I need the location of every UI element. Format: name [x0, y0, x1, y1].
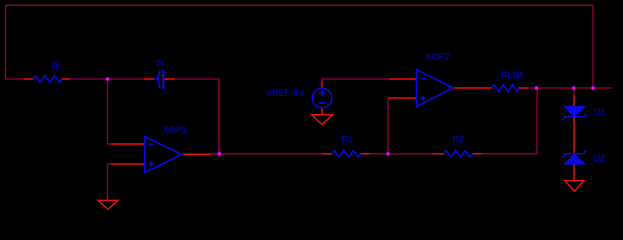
wire left vertical down to RI row — [5, 5, 7, 79]
diode D2 pins — [573, 164, 575, 181]
svg-text:VREF-0V: VREF-0V — [266, 88, 304, 98]
ground below VREF-0V — [312, 115, 333, 125]
wire node A down to XOP1 minus input — [108, 79, 112, 144]
op-amp XOP1 — [145, 137, 182, 173]
diode D1 zener — [563, 107, 587, 121]
resistor RI — [33, 76, 62, 83]
wire RI to CI with junction — [70, 78, 144, 80]
resistor R1 — [332, 151, 361, 158]
svg-text:R2: R2 — [453, 135, 465, 145]
diode D2 zener — [563, 150, 587, 164]
wire RLIM output row to right stub — [528, 87, 612, 89]
junction node A at RI-CI — [106, 77, 110, 81]
wire XOP1 output row to R1 — [211, 153, 322, 155]
wire D1 junction stub — [573, 88, 575, 95]
junction D1 node — [572, 86, 576, 90]
svg-text:D1: D1 — [594, 107, 606, 117]
junction XOP1 output node — [218, 152, 222, 156]
voltage source VREF-0V — [312, 88, 331, 107]
svg-text:RI: RI — [52, 61, 61, 71]
diode D1 pins — [573, 95, 575, 154]
junction R1-R2 node to XOP2 plus — [386, 152, 390, 156]
svg-text:XOP2: XOP2 — [426, 52, 450, 62]
wire R2 right up to RLIM output node — [482, 88, 537, 154]
capacitor CI — [154, 70, 163, 89]
svg-text:RLIM: RLIM — [501, 71, 523, 81]
wire R1 to R2 with junction to XOP2 plus — [370, 153, 432, 155]
resistor R2 — [444, 151, 473, 158]
resistor RLIM pins — [519, 87, 529, 89]
wire VREF to XOP2 minus input — [322, 79, 389, 81]
wire XOP1 plus input corner to ground — [108, 164, 112, 200]
wire right vertical down to output row — [592, 5, 594, 88]
op-amp XOP2 — [417, 70, 454, 107]
wire left corner to RI — [6, 78, 24, 80]
resistor RLIM — [492, 85, 519, 92]
wire CI to down corner — [175, 79, 219, 154]
op-amp XOP1 pins — [111, 144, 211, 164]
op-amp XOP2 pins — [388, 79, 492, 98]
resistor RI pins — [24, 78, 70, 80]
ground below XOP1 — [98, 200, 118, 209]
svg-text:D2: D2 — [594, 153, 606, 163]
ground below D2 — [565, 181, 584, 192]
resistor R1 pins — [322, 153, 370, 155]
svg-text:R1: R1 — [341, 135, 353, 145]
svg-text:XOP1: XOP1 — [163, 125, 187, 135]
resistor R2 pins — [432, 153, 482, 155]
junction RLIM output node — [535, 86, 539, 90]
capacitor CI pins — [144, 78, 175, 80]
wire XOP2 plus vertical — [387, 98, 389, 154]
wire top feedback from left corner to right corner — [6, 4, 594, 6]
junction right feedback node — [591, 86, 595, 90]
svg-text:CI: CI — [155, 58, 164, 68]
voltage source VREF-0V pins — [321, 81, 323, 115]
